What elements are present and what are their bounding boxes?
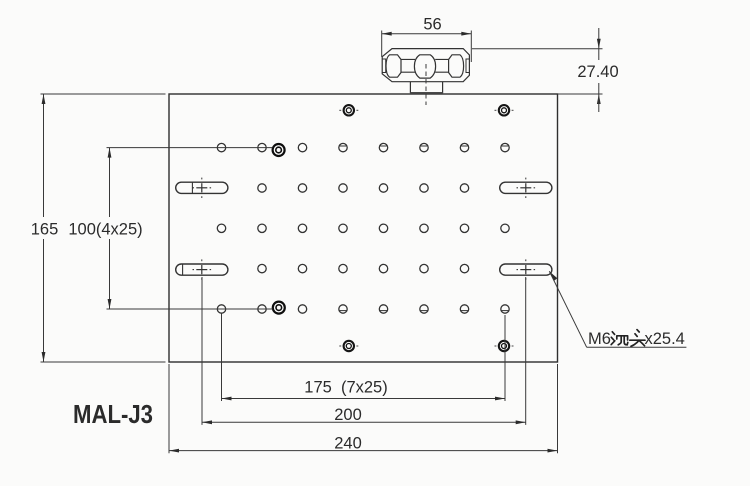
hole r3c7	[460, 224, 468, 232]
hole r3c2	[258, 224, 266, 232]
hole r1c5	[379, 143, 387, 151]
hole r5c1	[217, 305, 225, 313]
hole r2c7	[460, 184, 468, 192]
dowel hole bottom	[273, 302, 285, 314]
dim 165 extension lines	[41, 93, 166, 95]
hole r3c3	[298, 224, 306, 232]
slot right bottom	[500, 264, 552, 275]
svg-text:240: 240	[334, 434, 362, 452]
hole r5c5	[379, 305, 387, 313]
hole r4c5	[379, 264, 387, 272]
svg-text:MAL-J3: MAL-J3	[73, 399, 153, 429]
screw top-right	[499, 105, 509, 115]
hole r2c2	[258, 184, 266, 192]
slot left bottom	[176, 264, 228, 275]
knob left inner band	[382, 59, 385, 73]
svg-text:56: 56	[423, 16, 441, 34]
hole r5c4	[339, 305, 347, 313]
hole r5c2	[258, 305, 266, 313]
dim 175 extension lines	[221, 314, 223, 402]
hole r4c4	[339, 264, 347, 272]
knob right lobe	[449, 55, 464, 77]
knob right inner band	[466, 59, 469, 73]
hole r3c8	[501, 224, 509, 232]
hole r1c2	[258, 143, 266, 151]
screw bottom-left	[344, 341, 354, 351]
hole r1c1	[217, 143, 225, 151]
hole r5c6	[420, 305, 428, 313]
svg-text:200: 200	[334, 406, 362, 424]
hole r2c6	[420, 184, 428, 192]
hole r3c1	[217, 224, 225, 232]
dim 175 line	[222, 398, 506, 400]
leader M6 line	[549, 271, 586, 347]
dim 240 extension lines	[168, 364, 170, 453]
dim 200 line	[202, 421, 526, 423]
hole r2c3	[298, 184, 306, 192]
svg-text:165: 165	[31, 221, 59, 239]
svg-text:175 (7x25): 175 (7x25)	[304, 379, 387, 397]
slot right top	[500, 182, 552, 193]
screw bottom-right	[499, 341, 509, 351]
hole r3c6	[420, 224, 428, 232]
svg-text:100(4x25): 100(4x25)	[68, 221, 142, 239]
dim 240 line	[169, 450, 558, 452]
hole r1c8	[501, 143, 509, 151]
hole r1c4	[339, 143, 347, 151]
hole r2c4	[339, 184, 347, 192]
hole r4c7	[460, 264, 468, 272]
dim 56 extension lines	[381, 31, 383, 58]
hole r3c4	[339, 224, 347, 232]
slot left top	[176, 182, 228, 193]
dim 27.40 extension lines	[472, 48, 603, 50]
hole r1c7	[460, 143, 468, 151]
knob center dashed line	[425, 64, 427, 105]
knob center lobe	[414, 55, 435, 78]
hole r5c7	[460, 305, 468, 313]
dim 56 line	[382, 33, 472, 35]
knob left lobe	[386, 55, 401, 77]
dim 27.40 line + outside arrows	[598, 28, 600, 49]
hole r4c6	[420, 264, 428, 272]
hole r1c3	[298, 143, 306, 151]
hole r1c6	[420, 143, 428, 151]
hole r3c5	[379, 224, 387, 232]
hole r5c3	[298, 305, 306, 313]
dim 200 extension lines	[201, 277, 203, 425]
hole r4c3	[298, 264, 306, 272]
dim 100 extension lines	[107, 147, 273, 149]
hole r2c5	[379, 184, 387, 192]
dim 100 line	[109, 148, 111, 217]
plate body outline	[169, 94, 558, 362]
svg-text:x25.4: x25.4	[645, 330, 685, 348]
dowel hole top	[273, 144, 285, 156]
screw top-left	[344, 105, 354, 115]
hole r4c2	[258, 264, 266, 272]
svg-text:M6: M6	[588, 330, 611, 348]
clamp knob outer profile	[382, 49, 469, 82]
leader M6 countersunk arrow	[549, 271, 557, 281]
hole r5c8	[501, 305, 509, 313]
knob stem	[410, 82, 442, 94]
knob connector bar right	[435, 59, 448, 72]
knob connector bar left	[401, 59, 415, 72]
dim 165 line	[43, 94, 45, 217]
svg-text:27.40: 27.40	[577, 63, 618, 81]
